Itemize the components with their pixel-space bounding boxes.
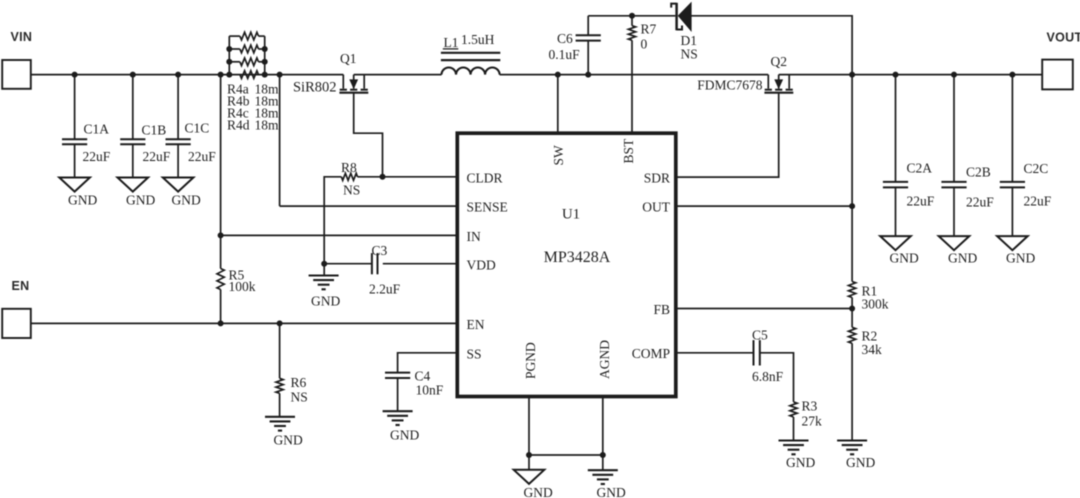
resistor R5: [217, 269, 224, 290]
svg-text:AGND: AGND: [597, 340, 612, 379]
svg-text:IN: IN: [467, 229, 481, 244]
label L1: [443, 35, 459, 50]
capacitor C1C: [166, 75, 217, 178]
wire SW pin: [557, 75, 559, 134]
wire Q1 gate to CLDR: [354, 93, 383, 177]
node EN R5 junction: [218, 320, 224, 326]
op-amp U1 body: [457, 133, 676, 396]
wire top line left: [588, 15, 675, 17]
svg-text:GND: GND: [524, 485, 553, 498]
resistor R1: [849, 282, 856, 298]
svg-text:Q2: Q2: [771, 54, 788, 69]
pin OUT: [642, 200, 670, 215]
svg-text:SW: SW: [551, 145, 566, 166]
label D1 NS: [681, 33, 698, 62]
capacitor C2A: [883, 75, 935, 237]
capacitor C5: [752, 328, 784, 385]
label R8 NS: [341, 160, 360, 198]
svg-text:SS: SS: [467, 346, 482, 361]
node AGND junction: [600, 452, 606, 458]
wire OUT: [676, 205, 852, 207]
svg-text:C2A: C2A: [907, 161, 933, 176]
resistor R4a: [229, 32, 264, 62]
wire AGND pin: [602, 397, 604, 456]
label U1: [562, 207, 580, 223]
svg-text:SENSE: SENSE: [467, 200, 508, 215]
svg-text:22uF: 22uF: [907, 194, 935, 209]
label 1.5uH: [461, 32, 495, 47]
svg-text:L1: L1: [444, 35, 459, 50]
wire VDD: [383, 263, 458, 265]
pin FB: [653, 302, 670, 317]
pin BST: [621, 138, 636, 164]
terminal VIN: [2, 60, 31, 89]
wire SS: [398, 353, 458, 373]
svg-text:300k: 300k: [862, 297, 889, 312]
node rail junction R4 right: [277, 72, 283, 78]
ground GND R6: [265, 417, 303, 448]
wire rail L1 to Q2: [500, 74, 769, 76]
svg-text:0: 0: [641, 37, 648, 52]
pin EN: [467, 317, 485, 332]
svg-text:22uF: 22uF: [966, 195, 994, 210]
svg-text:22uF: 22uF: [143, 149, 171, 164]
svg-text:R7: R7: [641, 22, 657, 37]
inductor L1 coil: [442, 67, 500, 74]
svg-text:MP3428A: MP3428A: [544, 249, 611, 266]
svg-text:VDD: VDD: [467, 258, 496, 273]
wire COMP: [676, 352, 754, 354]
svg-text:2.2uF: 2.2uF: [369, 282, 401, 297]
svg-text:GND: GND: [274, 433, 303, 448]
svg-text:R4d: R4d: [227, 118, 250, 133]
diode D1: [671, 3, 691, 31]
svg-text:NS: NS: [343, 183, 360, 198]
wire R6 to gnd: [279, 393, 281, 417]
svg-text:OUT: OUT: [642, 200, 670, 215]
svg-text:10nF: 10nF: [416, 383, 444, 398]
svg-text:C2B: C2B: [966, 165, 991, 180]
node EN R6 junction: [277, 320, 283, 326]
svg-text:U1: U1: [562, 207, 580, 223]
wire EN: [31, 322, 458, 324]
svg-text:PGND: PGND: [523, 342, 538, 379]
label SiR802: [293, 79, 337, 95]
pin SS: [467, 346, 482, 361]
svg-text:GND: GND: [597, 485, 626, 498]
pin VDD: [467, 258, 496, 273]
label R3 27k: [802, 399, 823, 429]
node C1C rail junction: [175, 72, 181, 78]
svg-text:VOUT: VOUT: [1047, 31, 1080, 45]
pin SDR: [644, 171, 670, 186]
ground GND C3: [309, 276, 341, 309]
label VIN: [11, 30, 33, 44]
node C6 rail junction: [585, 72, 591, 78]
node C2C rail junction: [1009, 72, 1015, 78]
wire top line right: [691, 16, 852, 75]
wire IN: [221, 234, 458, 236]
node OUT junction: [849, 203, 855, 209]
svg-text:0.1uF: 0.1uF: [549, 47, 581, 62]
node C1A rail junction: [72, 72, 78, 78]
label R6 NS: [291, 375, 308, 405]
pin PGND: [523, 342, 538, 379]
ground GND PGND: [514, 470, 553, 498]
label R4c 18m: [227, 106, 279, 121]
svg-text:22uF: 22uF: [188, 149, 216, 164]
node C2B rail junction: [951, 72, 957, 78]
ground GND C1B: [118, 178, 156, 208]
label VOUT: [1047, 31, 1080, 45]
terminal VOUT: [1042, 60, 1073, 90]
label R2 34k: [862, 329, 883, 358]
label EN: [12, 279, 30, 293]
resistor R4 bank buses: [229, 36, 264, 75]
svg-text:C6: C6: [557, 31, 573, 46]
resistor R7: [628, 16, 635, 133]
wire VIN rail to Q1: [31, 74, 344, 76]
node R4 bus junctions: [226, 46, 267, 78]
svg-text:BST: BST: [621, 138, 636, 164]
svg-text:FB: FB: [653, 302, 670, 317]
wire C5 to R3: [760, 353, 794, 402]
pin IN: [467, 229, 481, 244]
wire VIN drop upper: [220, 75, 222, 269]
wire R8 to C3 node: [324, 177, 341, 264]
svg-text:22uF: 22uF: [83, 149, 111, 164]
wire right vertical upper: [851, 75, 853, 282]
svg-text:GND: GND: [311, 294, 340, 309]
label MP3428A: [544, 249, 611, 266]
label R1 300k: [862, 284, 889, 312]
svg-text:CLDR: CLDR: [467, 170, 503, 185]
svg-text:1.5uH: 1.5uH: [461, 32, 495, 47]
pin SW: [551, 145, 566, 166]
transistor Q1: [339, 75, 368, 93]
svg-text:GND: GND: [68, 193, 97, 208]
svg-text:34k: 34k: [862, 342, 883, 357]
wire C3 gnd stem: [323, 264, 325, 276]
svg-text:C3: C3: [372, 243, 388, 258]
ground GND C1A: [59, 178, 97, 208]
label R4b 18m: [227, 94, 279, 109]
wire CLDR: [358, 176, 458, 178]
svg-text:27k: 27k: [802, 414, 823, 429]
node CLDR junction: [380, 174, 386, 180]
wire R2 to gnd: [851, 343, 853, 440]
terminal EN: [2, 309, 31, 338]
node SW junction: [555, 72, 561, 78]
svg-text:NS: NS: [291, 390, 308, 405]
svg-text:C2C: C2C: [1024, 161, 1049, 176]
ground GND R2: [837, 441, 875, 471]
wire R1 to R2: [851, 298, 853, 328]
wire SENSE: [280, 205, 458, 207]
inductor L1 core bars: [441, 53, 500, 60]
svg-text:C5: C5: [752, 328, 768, 343]
svg-text:NS: NS: [681, 47, 698, 62]
label Q2: [771, 54, 788, 69]
svg-text:6.8nF: 6.8nF: [752, 369, 784, 384]
svg-text:GND: GND: [390, 428, 419, 443]
wire EN to R6: [279, 323, 281, 378]
node FB junction: [849, 306, 855, 312]
wire FB: [676, 308, 852, 310]
svg-text:R6: R6: [291, 375, 307, 390]
svg-text:GND: GND: [1006, 251, 1035, 266]
label R7 0: [641, 22, 657, 52]
label R4d 18m: [227, 118, 279, 133]
resistor R4d: [240, 71, 259, 79]
svg-text:C1A: C1A: [84, 122, 110, 137]
label Q1: [340, 51, 357, 66]
svg-text:C1C: C1C: [185, 121, 210, 136]
resistor R4c: [240, 58, 259, 66]
node R7 top junction: [629, 13, 635, 19]
node rail VOUT junction: [849, 72, 855, 78]
wire PGND pin: [528, 397, 530, 456]
pin SENSE: [467, 200, 508, 215]
wire PGND to gnd: [528, 455, 530, 470]
svg-text:C1B: C1B: [142, 123, 167, 138]
svg-text:R8: R8: [341, 160, 357, 175]
ground GND AGND: [588, 470, 626, 498]
svg-text:C4: C4: [415, 369, 431, 384]
wire Q2 gate to SDR: [676, 93, 779, 177]
ground GND C2A: [880, 236, 919, 265]
label R4a 18m: [227, 82, 279, 97]
node IN junction: [218, 232, 224, 238]
svg-text:SDR: SDR: [644, 171, 670, 186]
capacitor C6: [549, 16, 601, 75]
svg-text:COMP: COMP: [632, 346, 670, 361]
svg-text:22uF: 22uF: [1024, 194, 1052, 209]
svg-text:GND: GND: [948, 251, 977, 266]
capacitor C2C: [1000, 75, 1052, 237]
pin COMP: [632, 346, 670, 361]
svg-text:EN: EN: [467, 317, 485, 332]
svg-text:FDMC7678: FDMC7678: [697, 78, 763, 93]
ground GND C2C: [997, 236, 1035, 265]
transistor Q2: [764, 75, 793, 93]
resistor R4b: [240, 45, 259, 53]
svg-text:GND: GND: [126, 193, 155, 208]
svg-text:Q1: Q1: [340, 51, 357, 66]
wire AGND to gnd: [602, 455, 604, 470]
ground GND C1C: [163, 178, 201, 208]
node C2A rail junction: [893, 72, 899, 78]
wire rail Q2 to VOUT: [779, 74, 1042, 76]
svg-text:100k: 100k: [229, 279, 256, 294]
capacitor C1B: [120, 75, 171, 178]
pin CLDR: [467, 170, 503, 185]
capacitor C3: [324, 243, 400, 297]
node rail junction left: [218, 72, 224, 78]
wire R5 to EN line: [220, 290, 222, 324]
ground GND C4: [383, 411, 420, 442]
svg-text:R3: R3: [802, 399, 818, 414]
resistor R6: [276, 378, 283, 393]
svg-text:GND: GND: [890, 251, 919, 266]
capacitor C2B: [941, 75, 994, 237]
svg-text:SiR802: SiR802: [293, 79, 337, 95]
ground GND C2B: [939, 236, 978, 265]
pin AGND: [597, 340, 612, 379]
node PGND junction: [526, 452, 532, 458]
resistor R8: [341, 173, 357, 180]
svg-text:GND: GND: [846, 455, 875, 470]
node C1B rail junction: [130, 72, 136, 78]
ground GND R3: [779, 441, 816, 471]
node C3 junction: [321, 261, 327, 267]
svg-text:EN: EN: [12, 279, 30, 293]
svg-text:GND: GND: [786, 455, 815, 470]
svg-text:VIN: VIN: [11, 30, 33, 44]
capacitor C4: [385, 369, 444, 412]
wire SENSE drop: [279, 75, 281, 207]
label FDMC7678: [697, 78, 763, 93]
svg-text:18m: 18m: [255, 118, 280, 133]
resistor R2: [849, 327, 856, 343]
label R5 100k: [229, 268, 256, 295]
wire R3 to gnd: [793, 417, 795, 441]
wire PGND-AGND link: [529, 454, 603, 456]
capacitor C1A: [62, 75, 111, 178]
svg-text:GND: GND: [172, 193, 201, 208]
wire rail Q1 to L1: [354, 74, 442, 76]
resistor R3: [790, 402, 797, 417]
